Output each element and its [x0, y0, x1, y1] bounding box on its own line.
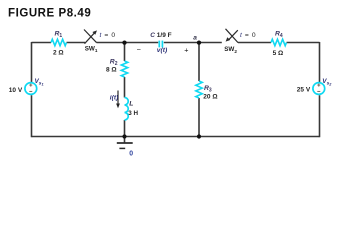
- svg-text:L: L: [129, 101, 133, 108]
- svg-text:i(t): i(t): [110, 95, 118, 102]
- svg-text:C 1/9 F: C 1/9 F: [150, 32, 171, 39]
- svg-text:0: 0: [129, 150, 133, 157]
- svg-text:8 Ω: 8 Ω: [106, 67, 117, 74]
- svg-text:3 H: 3 H: [128, 110, 138, 117]
- svg-text:25 V: 25 V: [297, 86, 311, 93]
- svg-text:5 Ω: 5 Ω: [273, 50, 284, 57]
- svg-text:t = 0: t = 0: [240, 32, 256, 39]
- svg-text:−: −: [137, 45, 141, 54]
- svg-text:t = 0: t = 0: [100, 32, 116, 39]
- svg-text:+: +: [184, 46, 188, 55]
- svg-text:FIGURE P8.49: FIGURE P8.49: [8, 7, 91, 19]
- svg-text:2 Ω: 2 Ω: [53, 49, 64, 56]
- svg-text:20 Ω: 20 Ω: [203, 93, 217, 100]
- svg-text:10 V: 10 V: [9, 87, 23, 94]
- svg-text:a: a: [193, 35, 197, 42]
- svg-text:v(t): v(t): [157, 47, 168, 54]
